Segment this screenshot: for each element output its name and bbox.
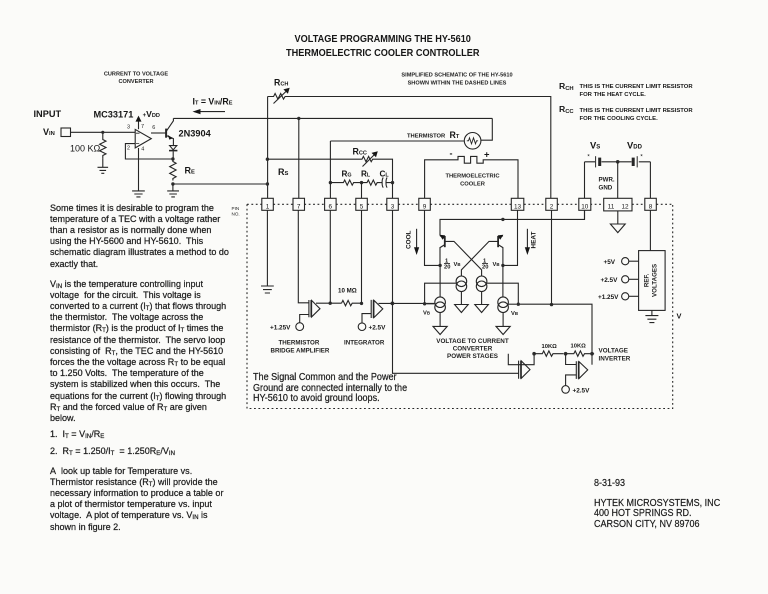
label RCC note [559,104,574,114]
svg-text:VS: VS [590,140,600,151]
node pin3 top junction [391,181,394,184]
node pin5 lower junction [360,302,363,305]
paragraph 2 [50,279,226,425]
output +1.25V [598,293,639,301]
pin 3 [387,198,399,210]
svg-text:+1.25V: +1.25V [598,294,619,301]
node pin6 lower junction [329,302,332,305]
svg-text:VOLTAGES: VOLTAGES [652,264,659,297]
wire +2.5V to integrator [362,314,371,323]
wire RCH top rail to pin 2 [286,97,551,199]
current source I1 (inner left) [456,276,467,292]
current source I2 (inner right) [476,276,487,292]
transistor Q1 2N3904 [166,118,211,145]
current source I4 (outer right) [498,297,509,313]
label RCH note [559,81,574,91]
svg-text:VDD: VDD [627,140,643,151]
svg-text:10KΩ: 10KΩ [571,344,587,350]
ground triangle (inner left) [455,305,469,313]
wire pin5 stub [361,183,363,198]
power +VDD arrow [136,109,160,129]
op-amp inverter B [576,361,587,379]
pin 5 [356,198,368,210]
svg-text:*: * [587,154,590,161]
supply VDD [627,140,643,168]
wire power stage rail to inverter corner [520,304,592,354]
wire rail to outer left source [426,303,435,305]
thermoelectric cooler TEC [425,149,518,199]
pin 10 [579,198,591,210]
wire pin10 down-left to collector rail [584,210,586,219]
label simplified schematic note [401,73,512,87]
svg-text:GND: GND [599,185,613,192]
svg-text:REF.: REF. [644,273,651,287]
wire pin3 long drop to inverter [393,210,519,373]
ground triangle (outer left) [433,326,447,334]
pin 2 [546,198,558,210]
wire cross-couple left base to right source [445,241,482,276]
ground (RE) [167,191,179,197]
svg-text:PWR.: PWR. [599,177,615,184]
wire inverter B feedback [591,354,593,365]
wire +2.5V to inverter B [566,375,577,386]
node pin7 junction [297,117,300,120]
wire thermistor bottom rail [330,140,464,142]
note signal common [253,373,407,405]
wire Vs to pin10 [584,162,586,199]
wire Vdd to pin8 [649,162,651,199]
resistor RCH (variable) [268,78,290,104]
pin 9 [419,198,431,210]
wire op-amp output to transistor base [151,132,166,134]
wire bias rail right [487,283,518,304]
label PIN NO. [232,206,240,217]
ground triangle (pwr gnd) [610,224,625,233]
node pin2 bottom junction [550,303,553,306]
transistor Q2 (cool side) [440,235,446,266]
ground (ref voltages) [645,316,658,323]
current source I3 (outer left) [435,297,446,313]
svg-text:V: V [677,312,682,321]
ground (pin 1) [261,286,274,293]
wire inner left source to gnd [460,292,462,305]
ground triangle (inner right) [475,305,489,313]
wire mid junction to pins 11-12 [617,162,619,199]
title line 1 and 2 [286,33,479,61]
pin 8 [645,198,657,210]
resistor RCC (variable) [267,147,392,183]
pin 7 [293,198,305,210]
wire pin8 down to ref voltages [649,210,651,250]
node Rs upper junction [266,158,269,161]
resistor RL [362,180,381,185]
wire ref voltages to ground [651,310,653,315]
label HEAT with arrow [525,229,538,255]
label PWR. GND [599,177,615,192]
node emitter junction [171,157,174,160]
equation 1 [50,429,104,440]
node left emitter junction [438,264,441,267]
op-amp U1 MC33171 [94,110,152,148]
capacitor CL [380,178,392,188]
op-amp pin numbers [127,124,155,152]
wire pin6 down [329,210,331,303]
equation 2 [50,446,175,457]
resistor 10K (second) [566,344,594,357]
node supply mid junction [616,160,620,164]
address block [594,499,720,531]
wire pins 11-12 to ground [617,211,619,224]
label COOL with arrow [406,229,420,255]
node right emitter junction [501,264,504,267]
wire outer left source to gnd [439,313,441,327]
label 1/20 VB (right) [482,259,500,271]
svg-text:+2.5V: +2.5V [601,277,619,284]
dashed enclosure of HY-5610 [247,204,673,408]
node below RE [171,182,174,185]
node inverter junction 3 [590,352,594,356]
pin 13 [511,198,524,210]
arrow current direction [193,109,226,114]
source +2.5V (inverter) [562,386,590,395]
svg-text:+5V: +5V [604,259,616,266]
resistor RG [330,180,361,185]
thermistor RT [407,130,481,149]
wire thermistor right loop to collector rail [481,118,492,140]
wire pin7 down to bridge amp [298,210,309,302]
pins 11 12 [604,198,632,211]
node integrator rail junction [423,302,426,305]
label voltage to current converter power stages [436,338,509,360]
transistor Q3 (heat side) [498,235,504,266]
wire pin5 down [361,210,363,303]
label voltage inverter [599,348,631,363]
wire RE to ground [172,184,174,191]
node pin6 top junction [329,181,332,184]
resistor 10K (first) [534,344,563,356]
wire right emitter to source [502,265,504,297]
pin 6 [325,198,337,210]
date [594,478,625,489]
node Rs lower junction [266,182,269,185]
wire outer right source to gnd [502,313,504,327]
wire pin6 stub [329,183,331,198]
wire bias rail left [425,283,457,304]
wire pin13 to right emitter node [503,210,518,265]
wire integrator output rail [379,302,435,304]
wire pin6 riser [329,141,331,183]
input terminal VIN [43,127,71,137]
wire supply rail [585,161,651,163]
output +5V [604,258,639,266]
node collector rail junction [501,218,504,221]
node inverter junction 1 [532,352,536,356]
wire feedback (pin 2 to emitter node) [125,144,172,159]
ground (100K) [98,158,109,173]
wire input to op-amp [71,131,136,133]
wire pin7 riser [298,118,300,198]
supply VS [587,140,600,168]
label thermistor bridge amplifier [271,340,330,355]
wire pin1 down [266,210,268,286]
wire bridge amp output [316,302,342,304]
svg-text:*: * [640,154,643,161]
wire collectors to pin10 rail [440,210,585,235]
source +2.5V (integrator) [358,323,386,331]
node pin5 top junction [360,181,363,184]
wire pin3 stub [392,183,394,198]
label 1/20 VB (left) [444,259,461,271]
wire pin9 to emitter node [425,210,441,265]
resistor RE [170,159,195,181]
wire rail to outer right source [508,303,516,305]
node pin3 lower junction [391,302,395,306]
wire pin2 down to inverter rail [551,210,553,304]
op-amp integrator [371,300,383,318]
op-amp inverter A [519,361,530,379]
svg-text:10KΩ: 10KΩ [542,344,558,350]
svg-text:INVERTER: INVERTER [599,356,631,363]
wire cross-couple right base to left source [461,241,498,276]
ground triangle (outer right) [496,326,510,334]
resistor 100KOhm [70,132,106,158]
label CURRENT TO VOLTAGE CONVERTER [104,72,169,86]
diode D1 (B-E) [169,146,177,159]
svg-text:VOLTAGE: VOLTAGE [599,348,629,355]
wire op-amp pin4 down [138,148,140,191]
node right bias junction [517,303,520,306]
wire +1.25V to bridge amp [300,315,309,323]
pin 1 [262,198,274,210]
node junction 100K [101,131,104,134]
source +1.25V [270,323,304,332]
resistor 10M [338,288,362,306]
wire pin1 riser [267,97,269,199]
voltage inverter input loop [508,354,534,365]
node inverter junction 2 [564,352,568,356]
svg-text:+2.5V: +2.5V [573,387,591,394]
paragraph 1 [50,203,229,270]
output +2.5V [601,276,639,284]
wire emitter node to Rs [173,183,268,185]
ground (op-amp pin 4) [132,191,145,197]
wire left emitter to source [439,265,441,297]
wire inner right source to gnd [481,292,483,305]
wire inverter B input loop [566,354,577,365]
wire collector line [173,117,492,119]
block REF. VOLTAGES [639,251,666,311]
paragraph 3 [50,466,223,533]
op-amp thermistor bridge amplifier [309,300,320,317]
